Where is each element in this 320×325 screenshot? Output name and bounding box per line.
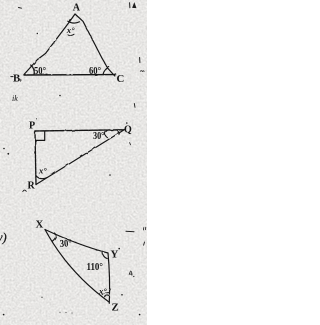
svg-text:50°: 50° [34, 65, 46, 77]
angle arc at Y [103, 251, 108, 258]
side XZ of triangle XYZ [45, 230, 109, 303]
stray dot below Y [121, 294, 123, 296]
svg-text:C: C [117, 73, 125, 85]
right angle square at P [35, 131, 44, 140]
svg-text:R: R [28, 181, 36, 192]
dot above Q [126, 122, 128, 124]
stray speck left of Z [41, 297, 42, 298]
svg-text:x°: x° [98, 286, 107, 296]
angle arc at Q [117, 130, 120, 135]
stray mark 1-triangle top right [129, 3, 131, 8]
stray dot right of Y arc [118, 248, 120, 250]
angle arc at C [103, 67, 109, 75]
stray speck left of triangle [37, 33, 38, 34]
angle arc at X [53, 233, 56, 241]
svg-text:Y: Y [111, 249, 119, 261]
base BC of triangle ABC [24, 74, 116, 76]
stray 4-mark right of YZ [129, 271, 132, 275]
stray speck below figure 2 [109, 174, 111, 176]
stray squiggle right of C [140, 70, 144, 73]
side AC of triangle ABC [75, 14, 115, 76]
svg-text:B: B [13, 73, 20, 85]
svg-text:A: A [73, 3, 81, 14]
stray dot left edge figure 2 [3, 148, 5, 150]
svg-text:110°: 110° [87, 261, 104, 273]
comma after B [20, 79, 22, 81]
stray vertical tick right of AC [139, 58, 141, 63]
svg-text:30°: 30° [93, 130, 105, 141]
outer angle arc at Z [103, 293, 109, 295]
svg-text:x°: x° [66, 25, 75, 35]
side AB of triangle ABC [24, 14, 75, 75]
stray caret above figure 3 [23, 190, 27, 191]
stray dot bottom left [3, 314, 5, 316]
stray tick right of PQ [129, 143, 132, 145]
angle arc at B [31, 65, 34, 75]
dash before B [11, 76, 13, 78]
svg-text:Z: Z [112, 302, 119, 314]
stray dash right of Y [126, 230, 134, 232]
stray dot above figure 2 [59, 95, 61, 97]
svg-text:X: X [36, 219, 44, 231]
stray slash right edge [143, 242, 146, 245]
svg-text:30°: 30° [59, 237, 72, 250]
inner angle arc at Z [104, 295, 109, 297]
stray dot bottom right [139, 314, 141, 316]
svg-text:60°: 60° [89, 65, 101, 77]
stray quote top right figure 3 [143, 227, 145, 230]
side PR of triangle PQR [35, 131, 36, 185]
scan grain [0, 0, 147, 325]
stray speck row bottom center [60, 312, 61, 313]
svg-text:': ' [36, 117, 37, 125]
svg-text:y): y) [0, 231, 7, 245]
svg-text:x°: x° [38, 166, 47, 176]
angle arc at R [36, 176, 48, 179]
svg-text:Q: Q [124, 125, 132, 136]
flourish arc after 30 label [105, 131, 107, 138]
side XY of triangle XYZ [45, 230, 108, 254]
svg-text:ik: ik [12, 94, 18, 103]
paper background [0, 0, 147, 325]
small arc under x at A [68, 34, 74, 35]
svg-text:P: P [29, 121, 35, 132]
stray dot left of figure 2 [7, 153, 9, 155]
stray dash top left [19, 7, 22, 10]
hypotenuse RQ of triangle PQR [36, 129, 125, 184]
side YZ of triangle XYZ [108, 253, 110, 303]
stray tick right of figure 2 top [133, 104, 136, 108]
angle arc at A [68, 21, 80, 23]
side PQ of triangle PQR [35, 130, 124, 131]
